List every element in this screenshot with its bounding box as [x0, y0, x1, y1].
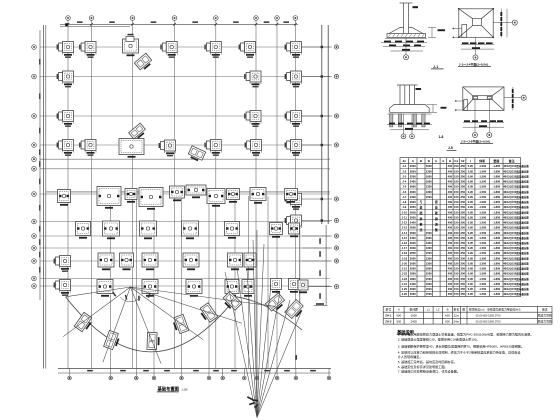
svg-text:150: 150: [454, 169, 459, 173]
svg-text:0.95: 0.95: [468, 205, 474, 209]
detail J-5 pile cap plan: [463, 87, 504, 111]
pile cap: [160, 42, 177, 58]
svg-text:150: 150: [454, 215, 459, 219]
svg-text:250: 250: [460, 205, 465, 209]
pile cap: [285, 42, 302, 58]
large pile cap: [285, 189, 298, 203]
svg-text:250: 250: [460, 200, 465, 204]
svg-text:3000: 3000: [410, 287, 416, 291]
svg-text:150: 150: [454, 277, 459, 281]
svg-text:400: 400: [448, 185, 453, 189]
svg-text:250: 250: [460, 261, 465, 265]
svg-text:250: 250: [460, 277, 465, 281]
svg-text:2400: 2400: [410, 180, 416, 184]
axis bubble: [180, 376, 184, 380]
axis bubble: [32, 259, 37, 264]
pile cap schedule table: [400, 158, 521, 297]
pile cap: [285, 111, 302, 127]
grid line: [40, 260, 330, 262]
pile cap: [79, 140, 96, 156]
svg-text:-1.500: -1.500: [478, 195, 486, 199]
svg-text:-1.500: -1.500: [478, 169, 486, 173]
svg-text:150: 150: [454, 190, 459, 194]
large pile cap: [270, 223, 283, 238]
svg-text:4Φ12@150双向通长筋: 4Φ12@150双向通长筋: [503, 246, 529, 250]
axis bubble: [32, 143, 37, 148]
pile: [390, 114, 393, 127]
svg-text:2400: 2400: [410, 195, 416, 199]
svg-text:2400: 2400: [410, 221, 416, 225]
svg-text:基: 基: [419, 205, 423, 210]
rotated pile cap: [171, 314, 188, 334]
svg-text:150: 150: [454, 282, 459, 286]
svg-text:4Φ12@150双向通长筋: 4Φ12@150双向通长筋: [503, 256, 529, 260]
axis bubble: [109, 376, 113, 380]
svg-text:按: 按: [435, 199, 438, 204]
svg-text:400: 400: [448, 174, 453, 178]
svg-text:J-6: J-6: [402, 190, 406, 194]
grid line: [40, 193, 330, 195]
svg-text:150: 150: [454, 267, 459, 271]
svg-text:-1.500: -1.500: [478, 287, 486, 291]
svg-text:J-5: J-5: [402, 185, 406, 189]
svg-text:400: 400: [448, 236, 453, 240]
svg-text:600: 600: [445, 320, 450, 324]
svg-text:4Φ12@150双向通长筋: 4Φ12@150双向通长筋: [503, 210, 529, 214]
svg-text:J-4: J-4: [402, 180, 406, 184]
svg-text:-1.800: -1.800: [493, 215, 501, 219]
svg-text:4Φ12@150双向通长筋: 4Φ12@150双向通长筋: [503, 292, 529, 296]
rotated pile cap: [198, 303, 218, 324]
svg-text:h1: h1: [455, 159, 459, 163]
grid line: [255, 21, 257, 369]
large pile cap: [289, 279, 300, 293]
svg-text:0.95: 0.95: [468, 210, 474, 214]
svg-text:基: 基: [434, 205, 438, 210]
svg-text:150: 150: [454, 251, 459, 255]
svg-text:0.95: 0.95: [468, 267, 474, 271]
large pile cap: [271, 279, 282, 293]
svg-text:-1.800: -1.800: [493, 226, 501, 230]
grid line: [215, 21, 217, 369]
large pile cap: [76, 222, 91, 239]
pile cap: [285, 140, 302, 156]
svg-text:1. 本工程采用静压预应力混凝土管桩基础，桩型为PHC-50: 1. 本工程采用静压预应力混凝土管桩基础，桩型为PHC-500(100)AB型，…: [398, 332, 534, 337]
large pile cap: [139, 188, 163, 210]
svg-text:250: 250: [460, 210, 465, 214]
svg-text:备注: 备注: [508, 158, 515, 163]
svg-text:-1.500: -1.500: [478, 215, 486, 219]
pile cap: [245, 140, 262, 156]
svg-text:1300: 1300: [426, 261, 432, 265]
svg-text:0.95: 0.95: [468, 226, 474, 230]
svg-text:4Φ12@150双向通长筋: 4Φ12@150双向通长筋: [503, 261, 529, 265]
svg-text:J-1: J-1: [402, 164, 406, 168]
svg-text:600: 600: [445, 314, 450, 318]
svg-text:-1.500: -1.500: [478, 205, 486, 209]
svg-text:1600: 1600: [426, 236, 432, 240]
svg-text:250: 250: [460, 251, 465, 255]
axis bubble: [221, 376, 225, 380]
svg-text:250: 250: [460, 267, 465, 271]
svg-text:3000: 3000: [410, 292, 416, 296]
axis bubble: [334, 45, 338, 49]
svg-text:0.95: 0.95: [468, 246, 474, 250]
svg-text:-1.800: -1.800: [493, 180, 501, 184]
svg-text:150: 150: [454, 241, 459, 245]
svg-text:400: 400: [448, 164, 453, 168]
axis bubble: [32, 74, 37, 79]
svg-text:h2: h2: [461, 159, 465, 163]
svg-text:-1.800: -1.800: [493, 221, 501, 225]
grid line: [40, 235, 330, 237]
svg-text:-1.500: -1.500: [478, 164, 486, 168]
axis bubble: [32, 192, 37, 197]
svg-text:础: 础: [420, 210, 423, 215]
axis bubble: [327, 376, 331, 380]
svg-text:1600: 1600: [426, 164, 432, 168]
grid line: [40, 247, 330, 249]
svg-text:2000: 2000: [410, 205, 416, 209]
svg-text:J-24: J-24: [402, 282, 408, 286]
svg-text:J-18: J-18: [402, 251, 408, 255]
svg-text:预应力管桩: 预应力管桩: [538, 314, 552, 318]
svg-text:体积: 体积: [478, 158, 485, 163]
svg-text:4Φ12@150双向通长筋: 4Φ12@150双向通长筋: [503, 267, 529, 271]
svg-text:b: b: [435, 159, 437, 163]
right boundary wall: [321, 25, 323, 224]
axis bubble: [130, 16, 135, 21]
pile cap: [79, 42, 96, 58]
svg-text:3. 基础钢筋保护层厚度40，承台侧面及底面保护层70，钢筋: 3. 基础钢筋保护层厚度40，承台侧面及底面保护层70，钢筋采用HPB300、H…: [398, 343, 524, 348]
svg-text:150: 150: [454, 226, 459, 230]
svg-text:-1.800: -1.800: [493, 205, 501, 209]
svg-text:150: 150: [454, 195, 459, 199]
svg-text:400: 400: [448, 246, 453, 250]
rotated pile cap: [104, 330, 121, 350]
svg-text:-1.500: -1.500: [478, 277, 486, 281]
svg-text:2000: 2000: [410, 267, 416, 271]
svg-text:1500: 1500: [426, 251, 432, 255]
svg-text:400: 400: [448, 200, 453, 204]
svg-text:J-14: J-14: [402, 231, 408, 235]
svg-text:-1.800: -1.800: [493, 241, 501, 245]
svg-text:4Φ12@150双向通长筋: 4Φ12@150双向通长筋: [503, 169, 529, 173]
svg-text:2600: 2600: [410, 251, 416, 255]
svg-text:150: 150: [454, 261, 459, 265]
svg-text:4Φ12@150双向通长筋: 4Φ12@150双向通长筋: [503, 282, 529, 286]
svg-text:-1.500: -1.500: [478, 282, 486, 286]
svg-text:J-13: J-13: [402, 226, 408, 230]
svg-text:1500: 1500: [426, 287, 432, 291]
svg-text:250: 250: [460, 190, 465, 194]
svg-text:J-1: J-1: [433, 65, 438, 69]
svg-text:桩号: 桩号: [386, 308, 392, 312]
svg-text:A: A: [398, 308, 400, 312]
svg-text:1800: 1800: [410, 272, 416, 276]
axis bubble: [334, 197, 338, 201]
svg-text:0.95: 0.95: [468, 241, 474, 245]
svg-text:250: 250: [460, 195, 465, 199]
large pile cap: [182, 221, 199, 239]
pile cap: [57, 42, 74, 58]
large pile cap: [227, 189, 240, 203]
axis bubble: [32, 219, 37, 224]
svg-text:4Φ12@150双向通长筋: 4Φ12@150双向通长筋: [503, 272, 529, 276]
svg-text:-1.800: -1.800: [493, 251, 501, 255]
svg-text:2400: 2400: [410, 236, 416, 240]
svg-text:-1.800: -1.800: [493, 231, 501, 235]
svg-text:1600: 1600: [426, 282, 432, 286]
svg-text:400: 400: [448, 210, 453, 214]
axis bubble: [243, 376, 247, 380]
svg-text:500: 500: [396, 320, 401, 324]
svg-text:250: 250: [460, 226, 465, 230]
pile cap: [57, 111, 74, 127]
right arc: [237, 297, 303, 330]
axis bubble: [68, 376, 72, 380]
svg-text:0.95: 0.95: [468, 272, 474, 276]
svg-text:J-10: J-10: [402, 210, 408, 214]
svg-text:-1.500: -1.500: [478, 210, 486, 214]
axis bubble: [487, 132, 492, 137]
radial fan 2: [225, 272, 257, 418]
svg-text:1300: 1300: [426, 241, 432, 245]
svg-text:-1.800: -1.800: [493, 282, 501, 286]
svg-text:250: 250: [460, 236, 465, 240]
pile schedule small table: [383, 306, 552, 324]
svg-text:150: 150: [454, 256, 459, 260]
svg-text:-1.500: -1.500: [478, 180, 486, 184]
pile cap: [57, 140, 74, 156]
svg-text:整: 整: [420, 221, 423, 226]
svg-text:0.95: 0.95: [468, 195, 474, 199]
svg-text:J-2: J-2: [402, 169, 406, 173]
svg-text:4Φ12@150双向通长筋: 4Φ12@150双向通长筋: [503, 174, 529, 178]
svg-text:400: 400: [448, 256, 453, 260]
svg-text:0.95: 0.95: [468, 185, 474, 189]
facade arc: [66, 297, 237, 352]
svg-text:0.95: 0.95: [468, 282, 474, 286]
svg-text:-1.800: -1.800: [493, 256, 501, 260]
svg-text:0.95: 0.95: [468, 164, 474, 168]
top dimension line: [60, 23, 298, 25]
svg-text:-1.500: -1.500: [478, 185, 486, 189]
pile: [422, 114, 425, 127]
grid line: [40, 76, 330, 78]
svg-text:梁: 梁: [434, 216, 438, 221]
pile cap: [244, 111, 261, 127]
axis bubble: [473, 55, 478, 60]
svg-text:0.95: 0.95: [468, 221, 474, 225]
pile: [413, 114, 416, 127]
svg-text:2600: 2600: [410, 200, 416, 204]
svg-text:250: 250: [460, 272, 465, 276]
svg-text:150: 150: [454, 185, 459, 189]
axis bubble: [334, 74, 338, 78]
large pile cap: [183, 253, 199, 270]
svg-text:24m: 24m: [454, 320, 460, 324]
svg-text:400: 400: [448, 190, 453, 194]
large pile cap: [120, 253, 134, 270]
svg-text:J-25: J-25: [402, 287, 408, 291]
svg-text:2600: 2600: [410, 169, 416, 173]
svg-text:Jn: Jn: [403, 159, 407, 163]
svg-text:-1.800: -1.800: [493, 164, 501, 168]
svg-text:1300: 1300: [426, 256, 432, 260]
svg-text:22m: 22m: [454, 314, 460, 318]
large pile cap: [250, 188, 266, 204]
svg-text:J-20: J-20: [402, 261, 408, 265]
axis bubble: [89, 16, 94, 21]
svg-text:0.95: 0.95: [468, 277, 474, 281]
svg-text:-1.500: -1.500: [478, 292, 486, 296]
svg-text:与: 与: [420, 199, 423, 204]
grid line: [40, 115, 330, 117]
rotated pile cap: [187, 146, 206, 163]
svg-text:6. 基础定位及标高详见建筑施工图。: 6. 基础定位及标高详见建筑施工图。: [398, 364, 448, 369]
pile cap: [244, 71, 261, 87]
rotated pile cap: [221, 291, 242, 312]
svg-text:150: 150: [454, 205, 459, 209]
pile cap: [159, 140, 176, 156]
axis bubble: [32, 167, 37, 172]
grid line: [40, 285, 330, 287]
svg-text:400: 400: [448, 282, 453, 286]
svg-text:250: 250: [460, 215, 465, 219]
pile cap: [239, 42, 256, 58]
axis bubble: [32, 246, 37, 251]
rotated pile cap: [74, 312, 94, 333]
svg-text:0.95: 0.95: [468, 261, 474, 265]
svg-text:2200: 2200: [410, 174, 416, 178]
svg-text:-1.800: -1.800: [493, 169, 501, 173]
svg-text:-1.500: -1.500: [478, 272, 486, 276]
grid line: [294, 21, 296, 369]
svg-text:J-19: J-19: [402, 256, 408, 260]
pile cap: [285, 71, 302, 87]
pile: [398, 114, 401, 127]
svg-text:150: 150: [454, 236, 459, 240]
svg-text:4Φ12@150双向通长筋: 4Φ12@150双向通长筋: [503, 236, 529, 240]
svg-text:桩间距: 桩间距: [410, 308, 419, 312]
svg-text:250: 250: [460, 241, 465, 245]
svg-text:4Φ12@150双向通长筋: 4Φ12@150双向通长筋: [503, 277, 529, 281]
axis bubble: [294, 376, 298, 380]
grid line (lower): [267, 196, 269, 369]
svg-text:400: 400: [448, 231, 453, 235]
axis bubble: [472, 132, 477, 137]
svg-text:2000: 2000: [410, 164, 416, 168]
axis bubble: [135, 376, 139, 380]
svg-text:b: b: [442, 159, 444, 163]
svg-text:-15.00 600 1800 2700: -15.00 600 1800 2700: [475, 320, 501, 324]
axis bubble: [254, 16, 259, 21]
detail J-1 independent footing section: [385, 3, 427, 39]
svg-text:梁: 梁: [419, 216, 423, 221]
svg-text:4Φ12@150双向通长筋: 4Φ12@150双向通长筋: [503, 195, 529, 199]
svg-text:-1.500: -1.500: [478, 267, 486, 271]
svg-text:400: 400: [448, 169, 453, 173]
axis bubble: [334, 259, 338, 263]
svg-text:150: 150: [454, 210, 459, 214]
svg-text:150: 150: [454, 221, 459, 225]
svg-text:-1.500: -1.500: [478, 251, 486, 255]
lower right wall edge: [299, 225, 301, 310]
rotated pile cap: [285, 300, 306, 321]
svg-text:150: 150: [454, 164, 459, 168]
svg-text:4Φ12@150双向通长筋: 4Φ12@150双向通长筋: [503, 180, 529, 184]
large pile cap: [125, 189, 137, 203]
svg-text:-1.800: -1.800: [493, 246, 501, 250]
svg-text:250: 250: [460, 180, 465, 184]
pile cap: [54, 280, 71, 296]
grid line (lower): [248, 196, 250, 369]
grid line: [174, 21, 176, 369]
svg-text:250: 250: [460, 174, 465, 178]
svg-text:1:100: 1:100: [182, 388, 189, 391]
svg-text:J-21: J-21: [402, 267, 408, 271]
axis bubble: [334, 218, 338, 222]
grid line (lower): [208, 196, 210, 369]
svg-text:J-11: J-11: [402, 215, 408, 219]
axis bubble: [293, 16, 298, 21]
svg-text:-1.500: -1.500: [478, 200, 486, 204]
left boundary wall: [43, 25, 45, 369]
svg-text:-1.800: -1.800: [493, 195, 501, 199]
svg-text:0.95: 0.95: [468, 236, 474, 240]
axis bubble: [334, 246, 338, 250]
svg-text:数: 数: [462, 308, 465, 312]
svg-text:250: 250: [460, 256, 465, 260]
large pile cap: [186, 185, 206, 198]
svg-text:-15.00 600 1800 2700: -15.00 600 1800 2700: [475, 314, 501, 318]
svg-text:400: 400: [448, 215, 453, 219]
svg-text:1500: 1500: [426, 231, 432, 235]
svg-text:250: 250: [460, 221, 465, 225]
large pile cap: [97, 187, 121, 209]
svg-text:-1.500: -1.500: [478, 261, 486, 265]
large pile cap: [140, 221, 157, 239]
svg-text:4Φ12@150双向通长筋: 4Φ12@150双向通长筋: [503, 164, 529, 168]
radial fan 1: [63, 287, 130, 337]
svg-text:7. 基础施工时应预留设备洞口，详见设备图。: 7. 基础施工时应预留设备洞口，详见设备图。: [398, 369, 460, 374]
svg-text:1-6: 1-6: [439, 135, 444, 139]
svg-text:150: 150: [454, 180, 459, 184]
svg-text:2000: 2000: [411, 314, 418, 318]
svg-text:-1.800: -1.800: [493, 261, 501, 265]
large pile cap: [186, 280, 202, 297]
grid line: [91, 21, 93, 369]
svg-text:400: 400: [448, 261, 453, 265]
axis bubble: [334, 234, 338, 238]
svg-text:-1.500: -1.500: [478, 236, 486, 240]
pile cap: [54, 256, 71, 272]
grid line: [132, 21, 134, 369]
large pile cap: [289, 223, 300, 237]
svg-text:4Φ12@150双向通长筋: 4Φ12@150双向通长筋: [503, 205, 529, 209]
svg-text:J-1～J-4平面(1=0.5A): J-1～J-4平面(1=0.5A): [459, 62, 488, 67]
svg-text:J-15: J-15: [402, 236, 408, 240]
rotated pile cap: [265, 293, 286, 313]
grid line: [67, 21, 69, 369]
svg-text:2400: 2400: [411, 320, 418, 324]
svg-text:3000: 3000: [410, 215, 416, 219]
large pile cap: [58, 190, 71, 206]
axis bubble: [172, 16, 177, 21]
large pile cap: [170, 186, 185, 201]
svg-text:150: 150: [454, 272, 459, 276]
